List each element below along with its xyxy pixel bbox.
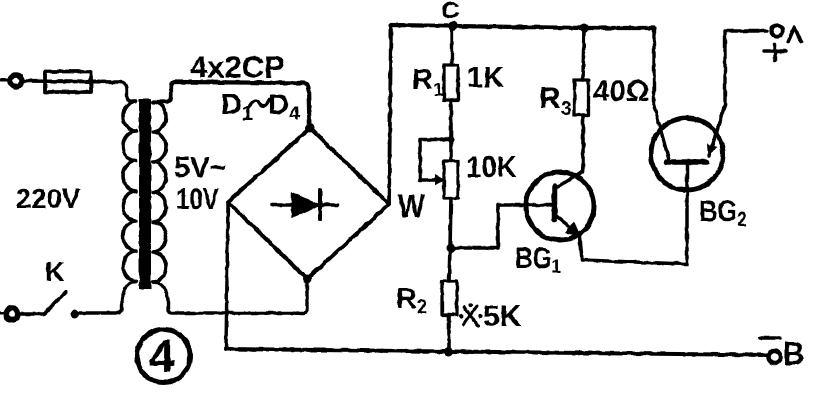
label 10K xyxy=(466,151,517,184)
potentiometer wiper link xyxy=(420,140,450,186)
wire secondary top to bridge top xyxy=(153,82,310,128)
svg-text:B: B xyxy=(783,336,804,373)
wire bridge left to bottom bus xyxy=(226,202,228,349)
resistor R2 xyxy=(442,248,457,352)
junction at bridge top xyxy=(306,124,315,133)
transformer primary winding xyxy=(123,101,136,281)
svg-text:10V: 10V xyxy=(176,181,219,215)
wire primary bottom to switch contact xyxy=(77,281,136,313)
svg-text:5K: 5K xyxy=(483,300,522,333)
svg-text:5V~: 5V~ xyxy=(174,152,226,184)
transformer secondary winding xyxy=(153,102,166,282)
input terminal (top left) xyxy=(1,75,22,87)
resistor R3 xyxy=(575,24,589,173)
transformer core xyxy=(139,99,151,289)
label BG1 xyxy=(515,241,561,278)
junction at bridge bottom xyxy=(303,275,312,284)
wire node to BG1 base xyxy=(451,205,551,248)
node W label xyxy=(398,189,425,224)
junction R2/bottom bus xyxy=(444,347,453,356)
wire top bus to BG2 collector xyxy=(654,28,669,160)
transistor BG2 xyxy=(651,105,725,190)
wire pot to node B1 xyxy=(450,198,451,248)
top bus wire xyxy=(391,25,654,28)
output terminal -B xyxy=(760,336,804,373)
wire C to R1 xyxy=(450,26,453,65)
svg-text:40Ω: 40Ω xyxy=(593,75,649,108)
fuse xyxy=(45,72,91,93)
wire secondary bottom to bridge bottom xyxy=(153,279,307,313)
resistor R1 xyxy=(444,65,458,100)
svg-text:220V: 220V xyxy=(16,183,81,214)
wire W to top bus xyxy=(389,26,391,204)
label C xyxy=(441,0,460,24)
svg-text:1K: 1K xyxy=(467,62,504,94)
wire R1 to potentiometer xyxy=(449,100,453,161)
bottom bus wire xyxy=(226,349,767,355)
svg-text:4x2CP: 4x2CP xyxy=(190,50,285,85)
label *5K xyxy=(459,300,521,333)
label BG2 xyxy=(699,194,747,230)
node junction R1/pot xyxy=(448,136,454,142)
diode inside bridge xyxy=(272,190,338,220)
bridge rectifier diamond D1~D4 xyxy=(228,128,389,279)
svg-text:K: K xyxy=(45,257,65,287)
transistor BG1 xyxy=(526,171,594,240)
wire input to transformer primary xyxy=(22,81,136,101)
output terminal + xyxy=(764,26,801,61)
svg-text:4: 4 xyxy=(149,330,175,382)
node junction pot/R2/base xyxy=(447,244,456,253)
wire BG1 emitter to BG2 base xyxy=(580,162,687,264)
label D1~D4 xyxy=(221,89,301,125)
switch K xyxy=(0,292,80,320)
svg-text:W: W xyxy=(398,189,425,224)
label 10V xyxy=(176,181,219,215)
potentiometer 10K xyxy=(444,161,458,198)
svg-text:10K: 10K xyxy=(466,151,517,184)
node C xyxy=(448,21,458,31)
figure number circle 4 xyxy=(137,330,190,383)
wire BG2 emitter to + terminal xyxy=(725,31,767,105)
svg-text:C: C xyxy=(441,0,460,24)
